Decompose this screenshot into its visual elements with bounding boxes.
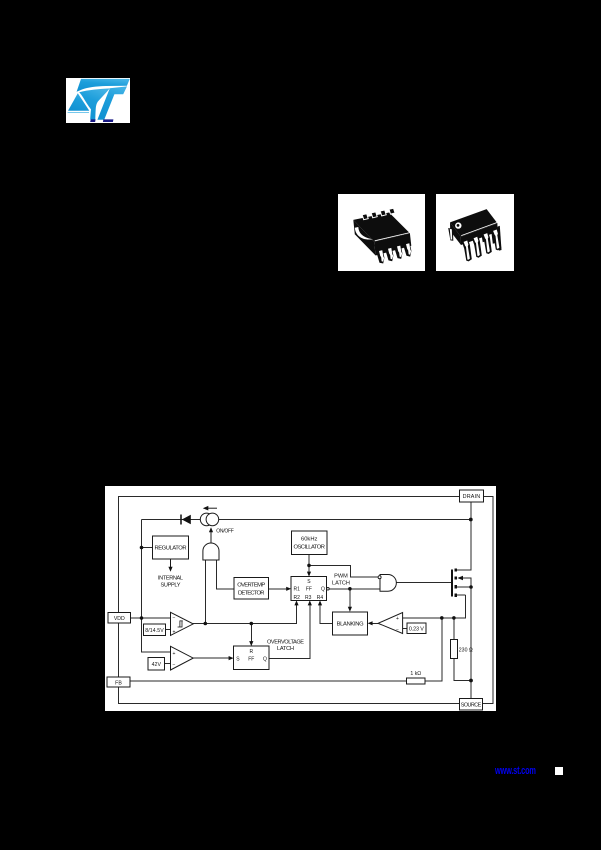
border frame of block: [119, 496, 494, 703]
svg-text:OVERVOLTAGE: OVERVOLTAGE: [267, 639, 304, 645]
svg-text:LATCH: LATCH: [277, 646, 294, 652]
node OV latch R branch: [250, 622, 254, 626]
svg-text:+: +: [173, 651, 176, 657]
wire sense comparator output: [370, 622, 379, 624]
wire 1 kohm to sense rail: [425, 618, 442, 681]
svg-text:VDD: VDD: [114, 616, 125, 622]
SO-8 body: [353, 213, 410, 242]
svg-text:R: R: [249, 649, 253, 655]
arrow into R2: [294, 600, 298, 605]
wire overtemp to R1: [269, 588, 290, 590]
back pins: [482, 226, 502, 251]
svg-text:ON/OFF: ON/OFF: [216, 529, 234, 535]
S tail navy cut: [90, 119, 95, 122]
DRAIN pin box: [460, 490, 484, 502]
box 0.23 V: [407, 623, 426, 634]
AND gate U3: [378, 575, 396, 592]
arrow into R1: [286, 587, 291, 591]
svg-text:60kHz: 60kHz: [301, 536, 318, 542]
link www.st.com: [495, 765, 529, 777]
svg-text:FF: FF: [248, 657, 254, 663]
resistor 230 ohm: [450, 640, 472, 659]
wire mosfet source lead: [457, 586, 471, 588]
svg-text:Q: Q: [321, 587, 325, 593]
node 230 ohm top: [452, 616, 456, 620]
wire top rail from startup to drain node: [142, 519, 471, 521]
PWM latch FF1: [291, 577, 329, 601]
S bottom triangle: [68, 93, 89, 110]
arrow into blanking right: [368, 621, 373, 625]
current source I1: [200, 513, 218, 526]
svg-text:230 Ω: 230 Ω: [459, 647, 473, 653]
svg-text:+: +: [173, 629, 176, 635]
svg-text:FF: FF: [306, 587, 312, 593]
wire drain vertical: [457, 502, 471, 570]
diode D1: [181, 515, 191, 525]
front pins: [464, 230, 500, 260]
svg-text:0.23 V: 0.23 V: [409, 627, 424, 633]
svg-text:SUPPLY: SUPPLY: [161, 582, 181, 588]
svg-text:1 kΩ: 1 kΩ: [410, 671, 421, 677]
T letter: [97, 86, 127, 119]
node mosfet source: [469, 585, 473, 589]
svg-text:SOURCE: SOURCE: [461, 703, 482, 709]
internal supply arrow: [168, 559, 172, 572]
svg-text:INTERNAL: INTERNAL: [158, 576, 183, 582]
node drain rail: [469, 518, 473, 522]
wire VDD branch to 42V comparator: [142, 618, 171, 652]
comparator current sense U4: [378, 613, 403, 634]
svg-text:OSCILLATOR: OSCILLATOR: [293, 544, 325, 550]
wire 230 ohm top: [453, 618, 455, 640]
arrowheads: [229, 572, 373, 661]
wire VDD rail to UVLO comparator: [131, 617, 171, 619]
svg-text:PWM: PWM: [334, 574, 348, 580]
pin1 notch: [455, 222, 461, 228]
overtemp detector box: [234, 577, 269, 599]
box 42V: [148, 658, 165, 670]
svg-text:DRAIN: DRAIN: [463, 494, 481, 500]
top band with S top stroke: [77, 79, 130, 92]
wire dome left leg: [204, 560, 206, 624]
wire regulator tap: [142, 547, 153, 549]
box 8/14.5V: [143, 624, 165, 636]
svg-text:LATCH: LATCH: [332, 580, 350, 586]
wire gate drive: [397, 582, 452, 584]
S middle stroke and tail: [79, 88, 110, 119]
arrow current direction: [203, 506, 217, 511]
wire UVLO output to R2: [193, 602, 296, 624]
arrow into OV latch S: [229, 656, 234, 660]
SOURCE pin box: [459, 698, 482, 710]
wire source vertical to SOURCE pin: [470, 587, 472, 698]
front pins shadows: [462, 228, 502, 261]
arrow into R4: [318, 600, 322, 605]
pin tips on back row: [362, 208, 395, 220]
front pins shadows: [376, 242, 412, 263]
wire 0.23V ref to comparator: [403, 627, 407, 629]
wire sense tap from mosfet: [457, 594, 465, 596]
svg-text:R3: R3: [305, 595, 312, 601]
svg-text:R2: R2: [294, 595, 301, 601]
overvoltage latch FF2: [234, 646, 269, 670]
wire OV latch Q to R3: [269, 602, 310, 658]
wire blanking to R4: [320, 602, 333, 623]
SO-8 package picture: [338, 194, 425, 271]
svg-text:FB: FB: [115, 680, 122, 686]
node dome leg on UVLO wire: [204, 622, 208, 626]
arrow into PWM S: [307, 572, 311, 577]
mold line on top face edge: [461, 223, 497, 236]
mold line between top and front face: [375, 233, 410, 241]
svg-text:DETECTOR: DETECTOR: [238, 591, 265, 597]
resistor 1 kohm: [407, 671, 425, 684]
svg-text:42V: 42V: [152, 662, 162, 668]
pin1 notch: [355, 227, 373, 240]
wire oscillator to S input: [308, 555, 310, 575]
arrow into OV latch R: [249, 641, 253, 646]
baseline sliver under triangle: [68, 111, 89, 113]
wire current sense rail: [403, 595, 466, 618]
wire blanking trigger: [349, 589, 351, 610]
wire 42V comparator output to S: [193, 657, 231, 659]
front pins: [379, 243, 411, 261]
node VDD rail: [140, 616, 144, 620]
comparator overvoltage 42V U2: [171, 646, 194, 670]
page marker square: [555, 767, 563, 775]
svg-text:R1: R1: [294, 587, 301, 593]
svg-text:OVERTEMP: OVERTEMP: [237, 583, 265, 589]
wire mosfet body lead: [463, 578, 472, 587]
svg-text:8/14.5V: 8/14.5V: [145, 628, 164, 634]
node source bottom: [469, 679, 473, 683]
left end pin: [448, 228, 453, 241]
DIP-8 body: [450, 209, 497, 237]
svg-text:+: +: [396, 616, 399, 622]
wire dome right leg to overtemp detector: [217, 560, 234, 589]
block diagram: [105, 486, 496, 711]
svg-text:−: −: [173, 616, 176, 622]
comparator UVLO U1: [171, 612, 194, 635]
oscillator box: [292, 531, 328, 555]
svg-text:REGULATOR: REGULATOR: [155, 546, 187, 552]
svg-text:−: −: [396, 627, 399, 633]
VDD pin box: [108, 613, 131, 624]
wire FB rail: [130, 680, 407, 682]
startup source dome: [203, 543, 219, 560]
wire oscillator branch to AND gate: [309, 565, 378, 577]
blanking box: [333, 612, 368, 635]
wire left vertical down to VDD node: [141, 520, 143, 619]
node PWM Q branch: [348, 587, 352, 591]
FB pin box: [107, 677, 130, 687]
ST logo: [66, 78, 130, 123]
node 1k sense join: [440, 616, 444, 620]
svg-text:Q: Q: [263, 657, 267, 663]
node oscillator branch: [307, 564, 311, 568]
regulator box: [152, 536, 188, 559]
wire PWM Q to AND gate: [329, 588, 380, 590]
DIP-8 package picture: [436, 194, 514, 271]
arrow into R3: [308, 600, 312, 605]
wire 230 ohm bottom to source node: [454, 659, 471, 681]
wire overvoltage latch R input: [250, 624, 252, 645]
svg-text:−: −: [173, 662, 176, 668]
node regulator tap: [140, 546, 144, 550]
svg-text:R4: R4: [317, 595, 324, 601]
T stem navy shadow: [103, 119, 114, 122]
svg-text:BLANKING: BLANKING: [337, 622, 364, 628]
wire 8/14.5V ref to comparator: [166, 628, 171, 630]
power MOSFET Q1: [451, 568, 463, 596]
on/off control arrow: [209, 527, 213, 542]
arrow into blanking top: [348, 607, 352, 612]
wire 42V ref to comparator: [165, 663, 171, 665]
